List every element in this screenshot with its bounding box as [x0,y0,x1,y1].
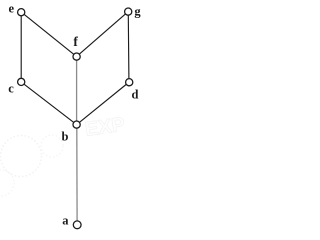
node d [126,79,133,86]
watermark circle small [41,135,63,157]
svg-text:d: d [132,87,139,101]
wire d-b [80,85,127,123]
wire g-f [79,14,125,54]
svg-text:f: f [73,34,78,49]
wire e-f [24,14,73,54]
svg-text:c: c [8,81,14,95]
wire g-d [127,15,130,78]
watermark arc corner [0,170,14,196]
svg-text:e: e [9,2,15,16]
wire b-a [76,128,78,221]
svg-text:g: g [134,4,141,18]
node f [73,53,80,60]
svg-text:a: a [62,213,69,227]
node b [73,121,80,128]
wire c-b [24,84,73,122]
wire f-b [76,60,78,121]
node a [73,221,81,229]
node g [125,8,132,15]
node e [18,9,25,16]
watermark circle large [1,136,42,177]
svg-text:b: b [62,129,69,143]
node c [18,78,25,85]
wire e-c [20,16,22,78]
